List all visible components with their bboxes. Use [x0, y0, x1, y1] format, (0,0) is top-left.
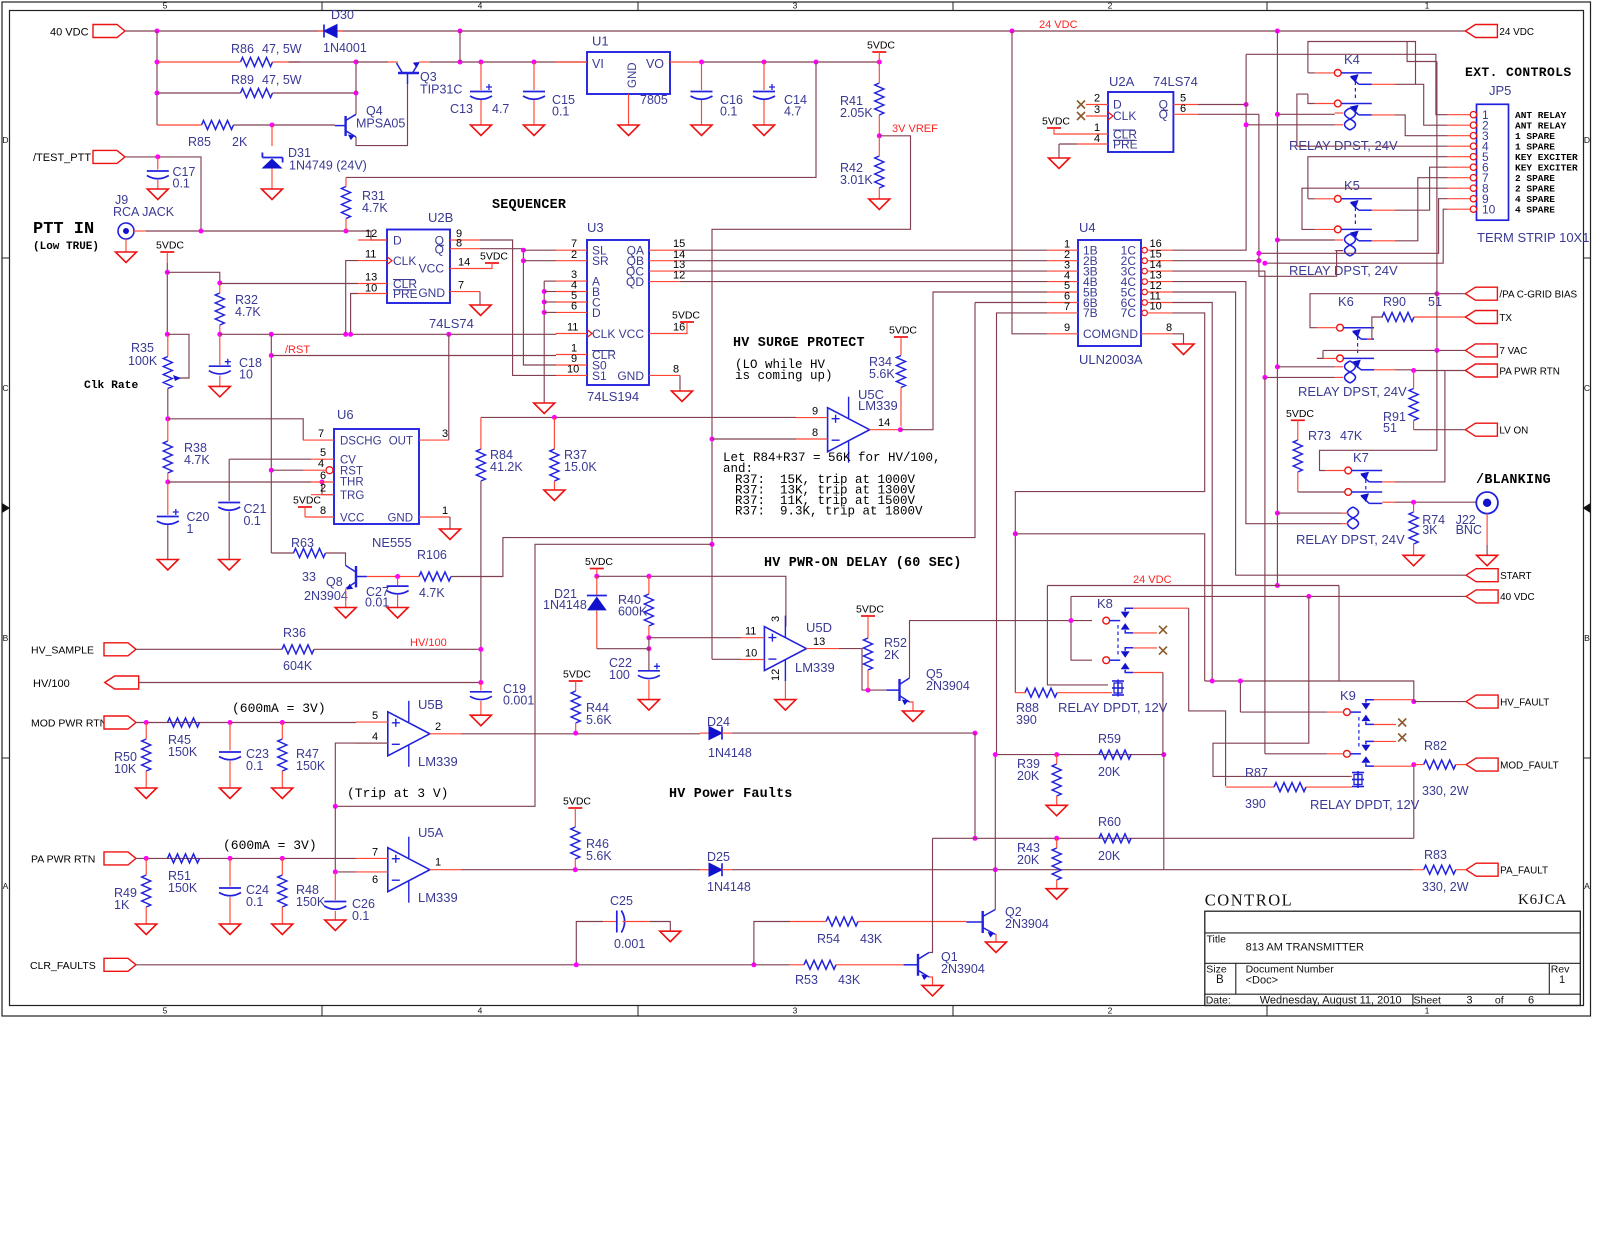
wire Q to S1 [480, 240, 556, 375]
svg-text:HV PWR-ON DELAY (60 SEC): HV PWR-ON DELAY (60 SEC) [764, 556, 962, 571]
svg-text:4: 4 [318, 458, 324, 470]
svg-text:5VDC: 5VDC [856, 604, 884, 616]
wire K8 pole2 NC to X [1133, 647, 1157, 649]
svg-text:A: A [1584, 881, 1590, 891]
node Qbar SL [521, 248, 526, 253]
wire R106 right [451, 303, 975, 577]
wire 3VREF down [335, 544, 712, 806]
wire VO rail [702, 61, 880, 63]
capacitor C27 plates [387, 585, 409, 587]
ground R74 [1403, 555, 1424, 566]
svg-text:5VDC: 5VDC [293, 495, 321, 507]
svg-text:D30: D30 [331, 8, 354, 22]
pin U5C minus 8 [796, 438, 828, 440]
node R43 top [1054, 836, 1059, 841]
svg-text:RCA JACK: RCA JACK [113, 205, 175, 219]
wire HV100 row [139, 682, 481, 684]
wire rail drop to top [459, 31, 461, 62]
diode D30 1N4001 [318, 30, 324, 32]
wire Q3 collector from R86 [356, 61, 388, 63]
pin U4 7C [1142, 310, 1148, 316]
svg-text:6: 6 [571, 301, 577, 313]
svg-text:GND: GND [387, 513, 413, 525]
pin U4 2C [1142, 258, 1148, 264]
capacitor C17 plates [147, 170, 169, 172]
wire K9 pole1 feed [1327, 711, 1344, 713]
svg-text:B: B [1584, 633, 1590, 643]
svg-text:10: 10 [1150, 301, 1162, 313]
pin U4 2B [1047, 260, 1078, 262]
wire to R63 [271, 552, 294, 554]
relay K8 pole 2 [1103, 657, 1110, 664]
node C13 top [479, 60, 484, 65]
svg-text:K6: K6 [1338, 294, 1354, 309]
svg-text:150K: 150K [168, 745, 198, 759]
svg-text:74LS74: 74LS74 [1153, 74, 1198, 89]
wire QB to U4 2B [680, 260, 1047, 262]
svg-text:PA_FAULT: PA_FAULT [1500, 866, 1548, 877]
wire R35 bottom [167, 389, 169, 419]
node R74 tap [1411, 500, 1416, 505]
connector 24 VDC right [1465, 25, 1497, 38]
svg-text:HV SURGE PROTECT: HV SURGE PROTECT [733, 336, 865, 351]
svg-text:100: 100 [609, 668, 630, 682]
node TRG tie [320, 480, 325, 485]
wire PTT line [146, 231, 387, 240]
svg-text:of: of [1495, 995, 1504, 1007]
ground U4 [1173, 344, 1194, 355]
svg-text:8: 8 [673, 363, 679, 375]
node top rail x1277 [1275, 29, 1280, 34]
wire K9 pole1 wire [1240, 711, 1327, 713]
node PRE clk tie [348, 332, 353, 337]
svg-text:1: 1 [435, 857, 441, 869]
resistor R46 [571, 827, 580, 859]
power 5VDC R52 [861, 615, 875, 617]
wire divider rail to plus [481, 416, 796, 418]
node R52 Q5 base [866, 688, 871, 693]
wire 5V delay rail [597, 576, 786, 626]
svg-text:R60: R60 [1098, 815, 1121, 829]
svg-text:K8: K8 [1097, 596, 1113, 611]
relay K9 coil [1357, 771, 1359, 788]
node HV100 [478, 647, 483, 652]
svg-text:5VDC: 5VDC [1286, 408, 1314, 420]
power 5VDC R34 [894, 336, 908, 338]
svg-text:3.01K: 3.01K [840, 173, 873, 187]
pin U6 RST 4 bubble [326, 467, 333, 474]
wire PA row [136, 857, 356, 859]
node C tie [542, 300, 547, 305]
svg-text:5.6K: 5.6K [586, 849, 612, 863]
node clock U6 out [446, 332, 451, 337]
svg-text:RELAY DPDT, 12V: RELAY DPDT, 12V [1058, 700, 1168, 715]
svg-text:<Doc>: <Doc> [1246, 975, 1278, 987]
node R50 tap [144, 720, 149, 725]
svg-text:R87: R87 [1245, 766, 1268, 780]
ground J9 [116, 252, 137, 263]
relay K5 contact A [1334, 195, 1341, 202]
resistor R42 [875, 156, 884, 188]
node 3VREF branch [710, 542, 715, 547]
transistor Q2 2N3904 [982, 911, 984, 933]
svg-text:8: 8 [1166, 322, 1172, 334]
svg-text:VO: VO [646, 57, 664, 71]
svg-text:6: 6 [372, 874, 378, 886]
relay K5 coil [1350, 234, 1356, 256]
relay K8 coil [1117, 680, 1119, 697]
wire QA to U4 1B [680, 249, 1047, 251]
ground R49 [136, 924, 157, 935]
svg-text:RELAY DPST, 24V: RELAY DPST, 24V [1289, 138, 1398, 153]
svg-text:(600mA = 3V): (600mA = 3V) [232, 701, 326, 716]
node R91 top [1411, 368, 1416, 373]
relay K6 contact B [1337, 355, 1344, 362]
svg-text:5VDC: 5VDC [1042, 116, 1070, 128]
wire K9 pole2 NC to X [1374, 740, 1396, 742]
relay K4 contact A [1334, 70, 1341, 77]
wire R36 out [314, 648, 481, 650]
wire QD to U4 4B [680, 281, 1047, 283]
svg-text:11: 11 [745, 626, 756, 638]
relay K6 coil [1350, 361, 1356, 383]
wire 40VDC left end [1071, 596, 1092, 660]
node HV fault K9 [1411, 699, 1416, 704]
svg-text:EXT. CONTROLS: EXT. CONTROLS [1465, 65, 1572, 80]
svg-text:COM: COM [1083, 327, 1111, 341]
wire K4 armB to JP5 3 [1395, 115, 1448, 136]
svg-text:12: 12 [770, 669, 782, 681]
svg-text:3: 3 [442, 428, 448, 440]
wire U5A out row [461, 869, 700, 871]
capacitor C18 10 [219, 334, 221, 365]
op-amp U5B triangle [388, 712, 430, 756]
resistor R36 [282, 645, 314, 654]
ground J22 [1477, 555, 1498, 566]
node rail x816 [814, 60, 819, 65]
wire R86 to Q3 node [289, 61, 357, 63]
connector MOD_FAULT shape [1466, 758, 1498, 771]
svg-text:330, 2W: 330, 2W [1422, 880, 1469, 894]
svg-text:VI: VI [592, 57, 604, 71]
svg-text:HV/100: HV/100 [33, 678, 70, 690]
wire BIAS row [1437, 293, 1466, 295]
svg-text:Let R84+R37 = 56K for HV/100,: Let R84+R37 = 56K for HV/100, [723, 451, 941, 465]
ground C18 [209, 386, 230, 397]
ground C14 [754, 125, 775, 136]
svg-text:604K: 604K [283, 659, 313, 673]
wire Q4 emitter to Q3 base [356, 84, 408, 146]
wire K9 pole2 NO [1374, 765, 1414, 767]
svg-text:B: B [1216, 974, 1224, 986]
wire R60 row [933, 837, 1414, 839]
wire B elbow [544, 291, 556, 293]
pin U4 4B [1047, 281, 1078, 283]
pin U6 OUT 3 [419, 439, 449, 441]
capacitor C14 plates [753, 91, 775, 93]
svg-text:4: 4 [372, 731, 378, 743]
node C17 tap [155, 154, 160, 159]
svg-text:20K: 20K [1017, 769, 1040, 783]
wire Qbar to SR [523, 260, 556, 262]
wire K6 armA to R90 [1372, 317, 1383, 339]
svg-text:ANT RELAY: ANT RELAY [1515, 110, 1567, 121]
wire PRE loop [351, 294, 358, 335]
wire JP5 pin10 route [1265, 209, 1448, 263]
capacitor C26 plates [324, 901, 346, 903]
wire C elbow [544, 301, 556, 303]
svg-text:10: 10 [745, 648, 757, 660]
pin U4 1C [1142, 247, 1148, 253]
power 5VDC R73 [1291, 419, 1305, 421]
capacitor C14 4.7 [763, 62, 765, 90]
node 24V K8rail [1275, 583, 1280, 588]
ground U5D [775, 700, 796, 711]
svg-text:R85: R85 [188, 135, 211, 149]
svg-text:2: 2 [320, 483, 326, 495]
node Qbar SR [521, 258, 526, 263]
pin U5C plus 9 [796, 417, 828, 419]
svg-text:D24: D24 [707, 715, 730, 729]
node U5C out R34 [898, 427, 903, 432]
svg-text:0.1: 0.1 [720, 105, 737, 119]
wire K5 contactB feed JP5 8 [1302, 188, 1448, 229]
svg-text:Clk Rate: Clk Rate [84, 380, 138, 392]
diode D24 body [709, 727, 722, 740]
pin U5D plus 11 [741, 637, 764, 639]
svg-text:8: 8 [812, 427, 818, 439]
wire clk to U2B CLK [346, 261, 358, 335]
wire K5 feed loop [1308, 157, 1320, 199]
svg-text:10K: 10K [114, 762, 137, 776]
wire 7VAC row [1323, 349, 1465, 351]
pin U4 3C [1142, 268, 1148, 274]
svg-text:Date:: Date: [1206, 995, 1231, 1007]
node R48 tap [280, 856, 285, 861]
svg-text:5VDC: 5VDC [563, 669, 591, 681]
pin U3 S0 9 [556, 364, 587, 366]
wire START row [1236, 574, 1467, 576]
pin U3 S1 10 [556, 374, 587, 376]
svg-text:PA PWR RTN: PA PWR RTN [1499, 366, 1560, 377]
svg-text:11: 11 [365, 249, 376, 261]
pin U3 VCC 16 [649, 333, 680, 335]
zener D21 1N4148 [596, 576, 598, 594]
pin U1 VO [670, 61, 702, 63]
resistor R32 [215, 293, 224, 325]
svg-text:R37: 9.3K, trip at 1800V: R37: 9.3K, trip at 1800V [735, 505, 923, 519]
ground U3 ABCD [534, 403, 555, 414]
node C23 tap [228, 720, 233, 725]
svg-text:4 SPARE: 4 SPARE [1515, 194, 1555, 205]
power 5VDC D21 R40 [590, 568, 604, 570]
svg-text:6: 6 [1528, 995, 1534, 1007]
node pin9 tie [1256, 251, 1261, 256]
resistor R35 body [163, 357, 172, 389]
svg-text:0.1: 0.1 [246, 895, 263, 909]
svg-text:0.001: 0.001 [503, 694, 534, 708]
power 5VDC R46 [568, 807, 582, 809]
wire pin1 drop [1245, 54, 1247, 125]
power 5VDC U2A [1047, 127, 1061, 129]
wire serpentine 2 [1015, 534, 1204, 681]
pin U6 VCC 8 [305, 516, 334, 518]
node 24V K4 [1275, 112, 1280, 117]
wire TEST_PTT [125, 157, 201, 231]
ground C17 [147, 189, 168, 200]
resistor R89 [241, 89, 273, 98]
power 5VDC above R41 [872, 51, 886, 53]
svg-text:VCC: VCC [619, 327, 645, 341]
svg-text:100K: 100K [128, 354, 158, 368]
pin JP5 2 [1470, 122, 1476, 128]
ground Q1 [922, 985, 943, 996]
wire 24V top rail right [337, 30, 1465, 32]
svg-text:R54: R54 [817, 932, 840, 946]
pin U2A CLK 3 [1086, 115, 1108, 117]
pin JP5 7 [1470, 175, 1476, 181]
pin U2B PRE 10 [358, 293, 387, 295]
resistor R54 [826, 917, 858, 926]
capacitor C16 plates [691, 91, 713, 93]
shift register U3 74LS194 [587, 240, 649, 385]
svg-text:40 VDC: 40 VDC [1500, 592, 1535, 603]
pin U6 GND 1 [419, 516, 450, 518]
svg-text:is coming up): is coming up) [735, 369, 833, 383]
svg-text:2K: 2K [884, 648, 900, 662]
wire Q8 base row [367, 576, 403, 578]
svg-text:D: D [592, 306, 601, 320]
resistor R38 [163, 441, 172, 473]
op-amp U5D triangle [764, 627, 806, 671]
ground R37 [544, 490, 565, 501]
svg-text:/PA C-GRID BIAS: /PA C-GRID BIAS [1499, 290, 1577, 301]
svg-text:0.1: 0.1 [173, 177, 190, 191]
svg-text:QD: QD [626, 275, 644, 289]
pin U6 CV 5 [311, 458, 334, 460]
zener D31 1N4749 [271, 125, 273, 146]
wire K5 armA to JP5 6 [1395, 167, 1448, 210]
wire THR row [168, 481, 311, 483]
connector CLR_FAULTS shape [104, 958, 136, 971]
svg-text:R53: R53 [795, 973, 818, 987]
capacitor C20 1 [167, 482, 169, 515]
resistor R37 [550, 449, 559, 481]
wire R86-R89 tie [355, 62, 357, 93]
pin U5B minus 4 [356, 742, 388, 744]
svg-text:13: 13 [813, 636, 825, 648]
ground C16 [691, 125, 712, 136]
pin U5C out 14 [870, 429, 901, 431]
pin U3 D 6 [556, 311, 587, 313]
svg-text:2N3904: 2N3904 [304, 589, 348, 603]
svg-text:1: 1 [1425, 1, 1430, 11]
node 5V branch [165, 270, 170, 275]
capacitor C27 0.01 [397, 577, 399, 586]
svg-text:D: D [393, 234, 402, 248]
node K4 coil return [1244, 122, 1249, 127]
wire K9 pole1 NO [1374, 699, 1414, 701]
relay K8 pole 1 [1103, 617, 1110, 624]
svg-text:GND: GND [617, 369, 644, 383]
pin U3 QB 14 [649, 260, 680, 262]
wire HV_SAMPLE [136, 648, 282, 650]
svg-text:K9: K9 [1340, 688, 1356, 703]
wire BIAS top elbow [1407, 42, 1437, 62]
svg-text:24 VDC: 24 VDC [1133, 574, 1172, 586]
pin U4 5C [1142, 289, 1148, 295]
svg-text:PRE: PRE [393, 287, 418, 301]
wire QC to U4 3B [680, 270, 1047, 272]
wire CV line [229, 458, 311, 460]
svg-text:R89: R89 [231, 73, 254, 87]
svg-text:HV_FAULT: HV_FAULT [1500, 697, 1549, 708]
pin U5B plus 5 [356, 721, 388, 723]
connector 40 VDC right shape [1466, 590, 1498, 603]
pin U2A PRE 4 [1077, 143, 1108, 145]
resistor R74 [1409, 512, 1418, 544]
resistor R50 [142, 739, 151, 771]
pin U2A Q 5 [1173, 104, 1198, 106]
svg-text:5VDC: 5VDC [480, 251, 508, 263]
svg-text:0.1: 0.1 [552, 105, 569, 119]
connector PA_FAULT shape [1466, 863, 1498, 876]
node D21 anode [646, 646, 651, 651]
relay K4 contact B [1334, 100, 1341, 107]
wire BIAS vertical [1436, 62, 1438, 351]
svg-text:7C: 7C [1121, 306, 1137, 320]
pin U3 SR 2 [556, 260, 587, 262]
node BIAS tie [1434, 291, 1439, 296]
capacitor C13 plates [470, 91, 492, 93]
pin JP5 9 [1470, 196, 1476, 202]
svg-text:10: 10 [1482, 202, 1496, 216]
capacitor C17 0.1 [157, 157, 159, 170]
pin U2B GND 7 [450, 291, 480, 293]
wire K8 24V loop [1047, 586, 1108, 685]
wire 40VDC row [1071, 595, 1466, 597]
ground C22 [638, 700, 659, 711]
svg-text:U5D: U5D [806, 620, 832, 635]
wire D elbow [544, 311, 556, 313]
wire 3VREF to pin10 [712, 658, 741, 660]
node R38 C20 THR [165, 480, 170, 485]
pin U4 4C [1142, 279, 1148, 285]
svg-text:Wednesday, August 11, 2010: Wednesday, August 11, 2010 [1260, 995, 1402, 1007]
svg-text:7: 7 [318, 428, 324, 440]
node C25 tie [574, 962, 579, 967]
ground C15 [524, 125, 545, 136]
svg-text:C13: C13 [450, 102, 473, 116]
svg-text:(600mA = 3V): (600mA = 3V) [223, 838, 317, 853]
node 40VDC K9 [1306, 594, 1311, 599]
resistor R41 [875, 83, 884, 115]
resistor R47 [278, 739, 287, 771]
node rail R41 [877, 60, 882, 65]
pin U3 QD 12 [649, 281, 680, 283]
connector 40 VDC input shape [93, 25, 125, 38]
node C27 tap [395, 574, 400, 579]
wire COM feed [1012, 31, 1047, 334]
resistor R85 [202, 121, 234, 130]
node C14 top [762, 60, 767, 65]
wire Q3 emitter rail [430, 61, 587, 63]
diode D25 body [709, 863, 722, 876]
pin U3 SL 7 [556, 249, 587, 251]
svg-text:74LS74: 74LS74 [429, 316, 474, 331]
svg-text:43K: 43K [838, 973, 861, 987]
resistor R90 body [1382, 313, 1414, 322]
